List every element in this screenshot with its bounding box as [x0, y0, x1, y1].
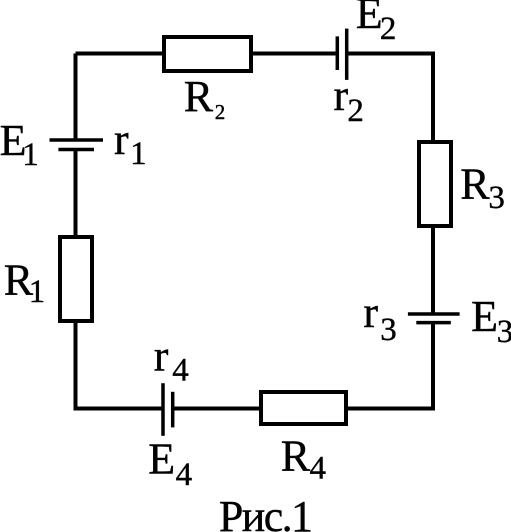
svg-text:3: 3 [380, 312, 397, 348]
svg-text:R: R [281, 432, 311, 481]
svg-text:r: r [363, 288, 378, 337]
wire E3 to bottom-right corner [431, 323, 435, 409]
wire bottom-right corner to E4 short plate [173, 407, 435, 411]
svg-text:r: r [114, 115, 129, 164]
battery E2 [337, 29, 346, 80]
svg-text:Рис.1: Рис.1 [219, 492, 312, 532]
svg-text:1: 1 [29, 274, 46, 310]
battery E1 [50, 140, 104, 150]
svg-text:r: r [334, 71, 349, 120]
wire E2 long plate to top-right corner [347, 52, 433, 56]
svg-text:E: E [471, 292, 498, 341]
svg-text:2: 2 [380, 11, 397, 47]
wire E4 long plate to bottom-left corner [76, 407, 164, 411]
battery E4 [163, 383, 173, 436]
svg-text:4: 4 [176, 457, 193, 493]
wire E1 long plate to top-left corner [74, 54, 78, 141]
wire right side top-right corner down to E3 [431, 52, 435, 315]
svg-text:3: 3 [497, 314, 511, 350]
svg-text:4: 4 [310, 450, 327, 486]
resistor R2 [164, 37, 251, 71]
battery E3 [408, 314, 460, 323]
resistor R4 [261, 392, 346, 424]
svg-text:1: 1 [22, 137, 39, 173]
svg-text:r: r [154, 331, 169, 380]
svg-text:3: 3 [488, 180, 505, 216]
svg-text:2: 2 [215, 100, 226, 124]
svg-text:E: E [148, 434, 175, 483]
svg-text:4: 4 [172, 353, 189, 389]
svg-text:R: R [184, 72, 214, 121]
resistor R3 [419, 142, 451, 226]
wire bottom-left corner up to E1 short plate [74, 150, 78, 411]
svg-text:2: 2 [347, 93, 364, 129]
svg-text:E: E [356, 0, 383, 38]
svg-text:1: 1 [130, 136, 147, 172]
wire top-left to E2 short plate [76, 52, 338, 56]
resistor R1 [60, 237, 92, 321]
svg-text:R: R [460, 159, 490, 208]
